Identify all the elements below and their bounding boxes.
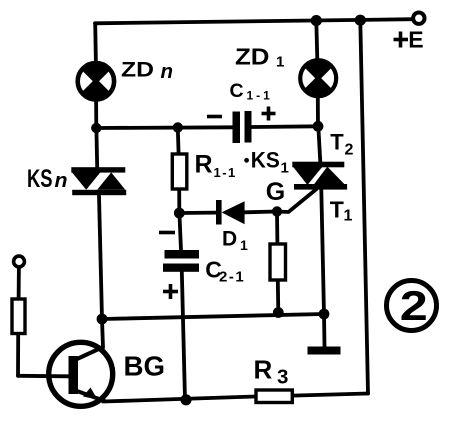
wire mid rail right segment (C1-1 to node B) [252,124,319,128]
wire KSn top lead [95,128,100,168]
junction dot top rail / right rail [355,15,366,26]
wire top rail [95,19,414,23]
resistor R3 [256,390,292,403]
node A junction dot [91,123,101,133]
wire input terminal lead [17,268,21,299]
svg-text:1: 1 [344,208,353,225]
wire base lead [18,374,69,378]
terminal input (left) [14,256,25,267]
wire diode D1 to node G [245,210,278,215]
junction dot R1-1 tap on mid rail [173,122,183,132]
terminal +E [413,13,424,24]
wire C2-1 bottom lead [182,271,185,400]
node D junction dot (collector) [97,314,108,325]
wire collector vertical into BG [102,319,103,348]
wire gate resistor top lead [275,212,279,244]
svg-text:2: 2 [400,282,428,329]
wire ground lead [322,314,326,347]
svg-text:BG: BG [124,351,166,382]
wire left drop to lamp ZDn [93,23,98,63]
junction dot bottom rail / C2-1 [180,394,191,405]
wire collector rail (node D to node E) [102,314,324,319]
ground [308,347,341,355]
wire lamp ZDn to node A [94,99,98,128]
resistor R1-1 [172,154,187,189]
wire gate diagonal to triac KS1 [277,189,317,212]
wire lamp ZD1 to node B [316,96,320,126]
svg-text:D: D [222,228,237,251]
svg-text:n: n [161,61,174,83]
capacitor C1-1 [233,111,252,143]
svg-text:T: T [330,196,344,222]
triac KS1 [292,162,347,190]
circled figure number 2 [387,281,437,331]
wire bottom rail right segment (R3 to right rail) [292,394,368,396]
svg-text:2-1: 2-1 [219,269,245,286]
wire ZD1 drop from top rail [316,21,317,60]
polarity minus C1-1 [207,115,222,119]
wire R1-1 top lead [176,128,181,154]
label KS1 [244,158,249,163]
junction dot top rail / ZD1 branch [311,15,322,26]
triac KSn [71,167,126,195]
svg-text:3: 3 [277,366,288,389]
wire C2-1 top lead [179,213,181,250]
capacitor C2-1 [163,250,199,272]
transistor BG [49,342,113,406]
node C junction dot [174,208,185,219]
resistor gate (unlabeled) [270,244,286,280]
svg-text:ZD: ZD [121,58,154,82]
wire node B to triac KS1 T2 [318,126,320,162]
svg-text:1: 1 [281,160,289,177]
diode D1 [216,200,245,225]
svg-text:1: 1 [276,54,284,71]
lamp ZDn [78,63,114,99]
svg-text:T: T [330,130,344,155]
polarity plus C1-1 [262,107,276,121]
lamp ZD1 [300,60,336,96]
junction dot T1 / ground [319,309,330,320]
wire R1-1 bottom lead [177,189,181,213]
node G junction dot [272,206,282,216]
polarity plus C2-1 [163,284,178,299]
resistor input (unlabeled) [12,299,25,334]
svg-text:2: 2 [345,142,354,159]
svg-text:ZD: ZD [235,44,270,70]
wire triac KS1 T1 lead [321,190,324,315]
svg-text:R: R [254,355,273,385]
svg-text:KS: KS [27,165,53,193]
svg-text:1-1: 1-1 [214,165,237,180]
wire bottom rail left segment (emitter to R3) [103,397,256,402]
svg-text:KS: KS [251,148,280,173]
svg-text:C: C [230,80,244,102]
wire node C to diode D1 [179,211,216,215]
wire gate resistor bottom lead [276,280,280,313]
label +E [394,32,409,48]
svg-text:E: E [408,26,423,52]
wire input resistor to corner [16,334,20,376]
wire right rail [360,20,368,393]
svg-text:R: R [195,151,213,179]
node E junction dot (resistor bottom) [273,307,284,318]
svg-text:G: G [266,178,285,206]
polarity minus C2-1 [159,231,175,235]
wire KSn bottom lead to node D [99,196,102,320]
wire mid rail left segment (node A to C1-1) [96,125,232,129]
svg-text:n: n [55,170,68,192]
node B junction dot [313,121,324,132]
svg-text:1-1: 1-1 [247,89,273,103]
svg-text:1: 1 [240,237,248,253]
